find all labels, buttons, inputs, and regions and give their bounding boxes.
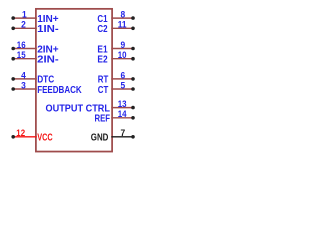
svg-text:REF: REF [95, 114, 111, 125]
svg-text:GND: GND [91, 133, 109, 144]
svg-text:VCC: VCC [37, 133, 53, 144]
svg-text:1IN-: 1IN- [37, 24, 59, 35]
svg-text:11: 11 [118, 20, 127, 31]
svg-text:5: 5 [120, 80, 125, 91]
svg-text:3: 3 [21, 80, 26, 91]
svg-text:CT: CT [98, 85, 109, 96]
svg-text:14: 14 [118, 109, 127, 120]
svg-text:12: 12 [16, 128, 25, 139]
svg-text:10: 10 [118, 50, 127, 61]
svg-text:2: 2 [21, 20, 26, 31]
svg-text:15: 15 [17, 50, 26, 61]
svg-text:7: 7 [120, 128, 125, 139]
svg-text:E2: E2 [97, 55, 107, 66]
svg-text:C2: C2 [97, 24, 107, 35]
svg-text:2IN-: 2IN- [37, 55, 59, 66]
svg-text:FEEDBACK: FEEDBACK [37, 85, 82, 96]
